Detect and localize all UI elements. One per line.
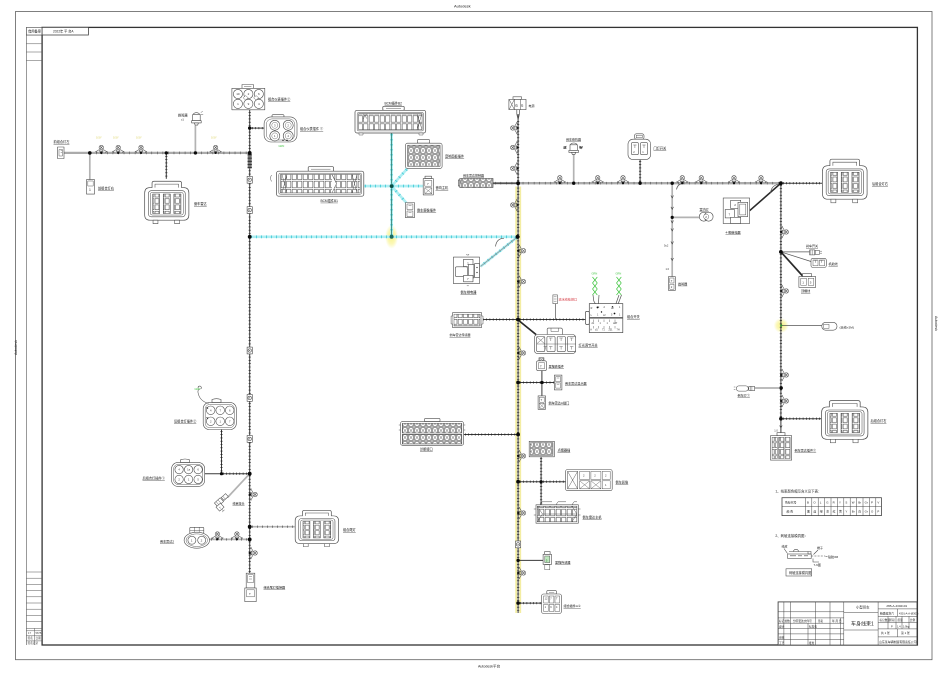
svg-text:GRN: GRN <box>592 272 598 276</box>
svg-text:GRN: GRN <box>195 387 201 391</box>
wire cyan diagonal to relay <box>481 237 518 267</box>
connector reversing video 8pin <box>566 470 613 491</box>
svg-text:R: R <box>591 307 593 310</box>
svg-text:231: 231 <box>609 329 614 332</box>
svg-text:BCM插件B2: BCM插件B2 <box>385 100 403 105</box>
svg-text:小型货车: 小型货车 <box>856 605 870 610</box>
wire branch y382 <box>518 382 554 384</box>
connector BC1 reversing radar <box>145 181 189 223</box>
connector splice pair <box>214 493 228 506</box>
svg-text:白: 白 <box>858 509 861 514</box>
svg-text:音响主机: 音响主机 <box>436 185 450 190</box>
wire stem door-switch connector <box>639 160 641 184</box>
svg-text:组合尾灯: 组合尾灯 <box>343 527 357 532</box>
connector fog sensor round <box>184 527 209 548</box>
svg-text:点烟器插: 点烟器插 <box>558 448 572 453</box>
svg-text:T: T <box>541 398 543 402</box>
wire diagonal to brake connector C <box>781 252 804 278</box>
connector big rear lamp right lower <box>822 401 868 443</box>
svg-text:前组合灯右: 前组合灯右 <box>98 186 114 191</box>
svg-text:R: R <box>833 501 835 505</box>
svg-text:刺破连接模具图: 刺破连接模具图 <box>789 570 811 575</box>
svg-text:后组合灯插件①: 后组合灯插件① <box>143 476 166 481</box>
connector R6b rear lamp 2 <box>203 399 236 430</box>
svg-text:工艺: 工艺 <box>779 641 785 645</box>
wire stub x672 down <box>671 183 673 276</box>
svg-text:签名记录: 签名记录 <box>28 641 39 645</box>
svg-text:Autodesk: Autodesk <box>934 316 938 331</box>
node yellow highlight band on center trunk <box>515 187 517 614</box>
node arc crossing near cyan junction <box>496 238 505 246</box>
svg-text:流水线检测口: 流水线检测口 <box>559 296 578 301</box>
svg-text:倒车雷达传感器: 倒车雷达传感器 <box>450 332 471 337</box>
wire lead connector R6c <box>205 473 222 475</box>
connector BC2 tail lamp <box>295 510 338 546</box>
wire branch to tail-lamp connector BC2 <box>250 526 295 528</box>
svg-text:电源: 电源 <box>529 103 535 108</box>
svg-text:组合仪表插件②: 组合仪表插件② <box>268 97 291 102</box>
svg-text:精确载货汽: 精确载货汽 <box>880 612 894 616</box>
relay K2 block <box>723 198 749 224</box>
node chevrons on x672 stub <box>671 196 674 261</box>
lamp clips along harness <box>95 122 788 579</box>
node green X splice chains <box>593 277 622 295</box>
connector buzzer tail 2pin <box>669 277 676 291</box>
svg-text:后组合灯右: 后组合灯右 <box>872 181 888 186</box>
connector diagnostic wide <box>399 418 466 445</box>
svg-text:倒车雷达显示器: 倒车雷达显示器 <box>565 381 587 386</box>
connector N9 audio panel <box>406 139 443 168</box>
svg-text:比例: 比例 <box>910 618 916 622</box>
node cyan hub junction <box>390 184 394 188</box>
svg-text:P: P <box>877 510 879 514</box>
svg-text:日期: 日期 <box>36 636 42 640</box>
svg-text:12: 12 <box>564 147 567 150</box>
wire diagonal relay block <box>750 183 781 211</box>
svg-text:T: T <box>671 279 673 283</box>
svg-text:Gr: Gr <box>865 501 868 505</box>
svg-text:灯光调节开关: 灯光调节开关 <box>579 343 599 348</box>
connector BCM B1 <box>271 167 364 197</box>
svg-text:S: S <box>845 501 847 505</box>
svg-text:线皮: 线皮 <box>782 544 788 549</box>
svg-text:组合仪表插件 ①: 组合仪表插件 ① <box>300 126 324 131</box>
svg-text:贴胶3M: 贴胶3M <box>828 554 839 559</box>
wire lead connector R6b down <box>222 430 250 474</box>
svg-text:T: T <box>249 592 251 596</box>
wire stub down to radar connector <box>780 419 782 436</box>
svg-text:倒车蜂鸣器: 倒车蜂鸣器 <box>566 137 581 142</box>
connector radar sensor strip left <box>451 313 483 328</box>
svg-text:批准: 批准 <box>809 641 815 645</box>
svg-text:Autodesk: Autodesk <box>14 340 18 355</box>
wire strip connector to trunk <box>493 182 518 184</box>
svg-text:里程传感器: 里程传感器 <box>555 560 570 565</box>
top-left revision table <box>26 27 42 35</box>
svg-text:红: 红 <box>833 509 836 514</box>
component antenna lead <box>822 322 837 330</box>
svg-text:1.4: 1.4 <box>897 624 901 628</box>
svg-text:审核: 审核 <box>779 636 785 640</box>
left strip column <box>25 27 27 645</box>
node junction dots <box>88 126 783 604</box>
svg-text:0.5Y: 0.5Y <box>96 136 102 140</box>
wire curl from R6b top <box>198 389 209 404</box>
svg-text:4-脚继电器: 4-脚继电器 <box>726 230 741 235</box>
svg-text:Br: Br <box>852 510 855 514</box>
wire branch to cluster connector R4 <box>250 127 264 129</box>
wire cyan hub right <box>392 185 424 188</box>
svg-text:第 1 张: 第 1 张 <box>901 631 910 635</box>
svg-text:倒车继电器: 倒车继电器 <box>461 290 478 295</box>
connector inline assembly-line check <box>553 295 558 304</box>
wire stem to 10-pin connector <box>540 482 542 505</box>
node green dot at antenna glow <box>780 324 782 326</box>
connector dome lamp grommet <box>699 212 713 221</box>
svg-text:倒车灯①: 倒车灯① <box>738 392 750 397</box>
svg-text:JXB-A-4302101: JXB-A-4302101 <box>886 604 908 608</box>
wire branch y603 <box>518 602 542 604</box>
svg-text:2、刺破连接模具图：: 2、刺破连接模具图： <box>775 533 807 538</box>
terminal crimp figure <box>782 544 839 577</box>
wire branch y560 <box>518 559 543 561</box>
svg-text:里程表插件: 里程表插件 <box>549 364 564 369</box>
svg-text:Gr: Gr <box>865 510 868 514</box>
svg-text:蓝: 蓝 <box>813 509 816 514</box>
svg-text:签名: 签名 <box>28 636 34 640</box>
connector lamp combo <box>535 328 576 354</box>
svg-text:17: 17 <box>28 631 31 635</box>
svg-text:倒车雷达A插门: 倒车雷达A插门 <box>549 400 570 405</box>
wire cyan hub to 2-pin connector <box>392 186 407 203</box>
connector odometer single <box>537 358 547 371</box>
component reverse lamp inline <box>734 386 755 391</box>
svg-text:1: 1 <box>89 188 91 192</box>
wire branch y434 to diagnostic connector <box>464 434 518 436</box>
svg-text:10: 10 <box>236 92 240 96</box>
connector combo A1 6pin <box>542 591 562 614</box>
connector radar display <box>554 375 562 390</box>
svg-text:倒车雷达: 倒车雷达 <box>194 201 208 206</box>
svg-text:签名: 签名 <box>818 619 824 623</box>
wire V-trunk-left lower <box>249 237 251 573</box>
svg-text:分区更改文件号: 分区更改文件号 <box>793 619 812 623</box>
connector mileage sensor <box>543 552 551 570</box>
connector gear sensor <box>538 396 545 409</box>
wire V-trunk-center top <box>517 114 519 183</box>
node yellow wire-size labels <box>96 136 217 140</box>
svg-text:倒车影像: 倒车影像 <box>616 480 630 485</box>
wire cyan BCM-B2 drop <box>390 133 393 237</box>
svg-text:0.5Y: 0.5Y <box>113 136 119 140</box>
svg-text:车身线束1: 车身线束1 <box>851 621 874 628</box>
wire H-trunk-left ticks <box>96 152 248 155</box>
svg-text:黄: 黄 <box>839 509 842 514</box>
svg-text:GRN: GRN <box>616 272 622 276</box>
connector R6c rear lamp 1 <box>172 459 205 486</box>
connector roof harness <box>799 274 816 288</box>
wire diagonal to splice pair <box>228 474 250 498</box>
svg-text:5u2: 5u2 <box>664 244 669 248</box>
wire corner to right big connector <box>781 182 822 184</box>
wire cyan hub to 9-pin connector <box>392 168 408 186</box>
wire funnels from splice chains into column switch <box>593 295 599 308</box>
svg-text:6V: 6V <box>580 147 583 150</box>
svg-text:Y: Y <box>839 501 841 505</box>
wire reverse lamp tap <box>755 387 781 389</box>
svg-text:倒车雷达插件①: 倒车雷达插件① <box>795 448 817 453</box>
wire H-trunk-left base <box>63 152 250 154</box>
svg-text:倒车雷达控制器: 倒车雷达控制器 <box>463 173 484 178</box>
svg-text:Br: Br <box>858 501 861 505</box>
buzzer B1 horn <box>192 111 204 125</box>
svg-text:后组合灯右: 后组合灯右 <box>871 418 887 423</box>
svg-text:7-9图: 7-9图 <box>814 563 821 567</box>
svg-text:7H: 7H <box>617 329 620 332</box>
wire V-trunk-center main <box>517 183 519 613</box>
svg-text:倒车摄像插件: 倒车摄像插件 <box>417 208 437 213</box>
buzzer B2 radar buzzer <box>564 143 583 154</box>
svg-text:组合开关: 组合开关 <box>627 314 641 319</box>
connector BCM B2 <box>355 106 426 135</box>
svg-text:蜂鸣器: 蜂鸣器 <box>178 113 188 118</box>
wire branch to fog sensor <box>210 538 250 540</box>
wire odometer stem down <box>541 383 543 396</box>
wire branch to dome lamp grommet <box>672 216 699 218</box>
connector R6 instrument cluster 2 <box>232 85 265 110</box>
svg-text:室内灯: 室内灯 <box>700 207 709 212</box>
svg-text:色标代号: 色标代号 <box>785 500 797 505</box>
connector engine-bay 2pin <box>811 258 826 267</box>
wire branch y481 <box>518 481 566 483</box>
svg-text:V: V <box>877 501 879 505</box>
connector door switch <box>628 134 651 160</box>
svg-text:2022年 平 台A: 2022年 平 台A <box>53 29 74 34</box>
wire stem from cluster connector R6 <box>249 110 251 153</box>
wire stem inline check connector <box>554 304 556 320</box>
svg-text:黑: 黑 <box>807 510 810 514</box>
svg-text:年 月 日: 年 月 日 <box>832 619 842 623</box>
node arc at right trunk corner <box>771 184 780 193</box>
svg-text:共 1 张: 共 1 张 <box>881 631 890 635</box>
svg-text:GRN: GRN <box>279 144 285 148</box>
svg-text:门灯开关: 门灯开关 <box>654 146 668 151</box>
svg-text:5675: 5675 <box>36 631 42 635</box>
wire clips on trunks <box>247 176 252 183</box>
svg-text:山东某车辆制造有限责任公司: 山东某车辆制造有限责任公司 <box>879 639 917 644</box>
node funnel below X66 connector <box>517 110 520 120</box>
svg-text:P: P <box>891 624 893 628</box>
wire corner to lower big connector <box>781 418 821 420</box>
svg-text:B: B <box>807 501 809 505</box>
connector radar plug 1 <box>771 433 792 460</box>
svg-text:借用备案: 借用备案 <box>28 29 42 34</box>
node chevron on stub <box>780 426 783 428</box>
svg-text:前组合灯左: 前组合灯左 <box>54 139 71 144</box>
connector audio host small <box>423 176 433 195</box>
node yellow glow at antenna tap <box>774 318 789 333</box>
svg-text:BCM插件B1: BCM插件B1 <box>321 198 339 203</box>
svg-text:质量: 质量 <box>898 618 904 622</box>
svg-text:音响面板插件: 音响面板插件 <box>445 154 465 159</box>
svg-text:1:9kg: 1:9kg <box>903 624 910 628</box>
connector tail harness plug <box>245 573 256 601</box>
wire stem buzzer B2 <box>573 155 575 184</box>
node yellow glow at cyan junction <box>385 225 398 249</box>
svg-text:后组合灯插件②: 后组合灯插件② <box>174 419 197 424</box>
connector R4 instrument cluster 1 <box>264 115 297 142</box>
wire stem to reverse-radar connector BC1 <box>165 153 167 179</box>
svg-text:阶段: 阶段 <box>890 618 896 622</box>
wire stem buzzer B1 <box>194 126 196 153</box>
connector C2 front lamp right <box>87 180 95 195</box>
svg-text:灰: 灰 <box>826 509 829 514</box>
wire brake switch tap <box>781 251 810 253</box>
relay K1 reversing relay <box>453 254 479 286</box>
svg-text:顶棚线: 顶棚线 <box>801 288 810 293</box>
svg-text:组合插件A①: 组合插件A① <box>564 603 581 608</box>
wire lighter stem <box>540 457 542 482</box>
svg-text:诊断接口: 诊断接口 <box>420 447 433 452</box>
svg-text:T: T <box>540 364 542 368</box>
connector big rear lamp right upper <box>822 159 867 203</box>
wire V-trunk-left upper <box>249 153 251 237</box>
svg-text:Y: Y <box>845 510 847 514</box>
svg-text:组合尾灯插接器: 组合尾灯插接器 <box>264 585 286 590</box>
node arc right of x672 junction <box>677 184 684 190</box>
svg-text:0.5Y: 0.5Y <box>211 136 217 140</box>
svg-text:蜂鸣器: 蜂鸣器 <box>678 281 687 286</box>
wire odometer stem up <box>541 371 543 383</box>
connector cigar lighter <box>529 441 554 457</box>
svg-text:0.5Y: 0.5Y <box>136 136 142 140</box>
svg-text:(天线+2M): (天线+2M) <box>840 324 854 329</box>
connector brake switch inline <box>810 250 822 255</box>
wire V-trunk-left wide sheath <box>248 154 252 169</box>
svg-text:4301-A-A-(8303): 4301-A-A-(8303) <box>899 612 918 616</box>
wire H-trunk-right ticks <box>495 182 779 185</box>
svg-text:1.0: 1.0 <box>666 267 670 271</box>
svg-text:≥1: ≥1 <box>181 118 184 122</box>
wire branch y319 left <box>482 319 518 321</box>
wire diagonal to lamp-combo connector <box>518 320 536 335</box>
svg-text:刹车开关: 刹车开关 <box>806 243 818 248</box>
svg-text:线束接头: 线束接头 <box>233 501 245 506</box>
svg-text:设计: 设计 <box>779 625 785 629</box>
svg-text:Autodesk平台: Autodesk平台 <box>478 664 501 669</box>
svg-text:P: P <box>871 501 873 505</box>
wire V-trunk-right <box>780 183 782 419</box>
connector reversing camera 2pin <box>406 203 415 218</box>
svg-text:d2P: d2P <box>613 322 618 325</box>
connector radar host 10pin <box>534 502 581 523</box>
svg-text:颜 色: 颜 色 <box>787 509 794 514</box>
wire cyan horizontal <box>250 236 518 238</box>
wire antenna tap <box>781 325 822 327</box>
svg-text:1a: 1a <box>187 468 190 472</box>
svg-text:端子: 端子 <box>817 545 823 550</box>
wire cyan hub left to BCM-B1 <box>364 185 392 188</box>
svg-text:绿: 绿 <box>820 509 823 514</box>
svg-text:倒车雷达主机: 倒车雷达主机 <box>583 515 603 520</box>
svg-text:1、线束颜色缩写含义见下表：: 1、线束颜色缩写含义见下表： <box>775 489 821 494</box>
wire H-trunk-right base <box>493 182 781 184</box>
connector combination switch <box>586 304 623 333</box>
wire drop to connector C2 <box>89 153 91 180</box>
wire branch y319 right to column switch <box>518 319 585 321</box>
svg-text:Autodesk: Autodesk <box>454 4 471 9</box>
svg-text:处数: 处数 <box>785 619 791 623</box>
svg-text:倒车雷达2: 倒车雷达2 <box>160 539 174 544</box>
connector C1 front lamp left <box>58 147 65 159</box>
svg-text:标准化: 标准化 <box>809 625 817 629</box>
svg-text:1.0: 1.0 <box>774 429 778 433</box>
svg-text:W: W <box>852 501 855 505</box>
wire diagonal to brake connector B <box>781 252 811 262</box>
connector X66 power top <box>509 97 526 110</box>
connector LS radar controller strip <box>458 179 493 188</box>
svg-text:机舱线: 机舱线 <box>829 261 838 266</box>
